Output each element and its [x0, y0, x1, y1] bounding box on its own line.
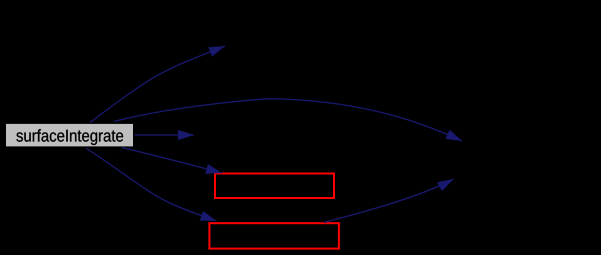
- node surfaceIntegrate label: [16, 129, 123, 145]
- node red box 2: [209, 223, 339, 248]
- wire edge red box 2 to right node: [324, 179, 454, 223]
- wire edge surfaceIntegrate to red box 1: [122, 148, 222, 174]
- node surfaceIntegrate box: [6, 123, 134, 146]
- wire edge surfaceIntegrate to top node: [90, 46, 225, 123]
- wire edge surfaceIntegrate to red box 2: [86, 148, 217, 221]
- wire edge surfaceIntegrate short horizontal: [135, 134, 195, 136]
- wire edge surfaceIntegrate arc to right node: [114, 99, 462, 141]
- node red box 1: [215, 174, 334, 199]
